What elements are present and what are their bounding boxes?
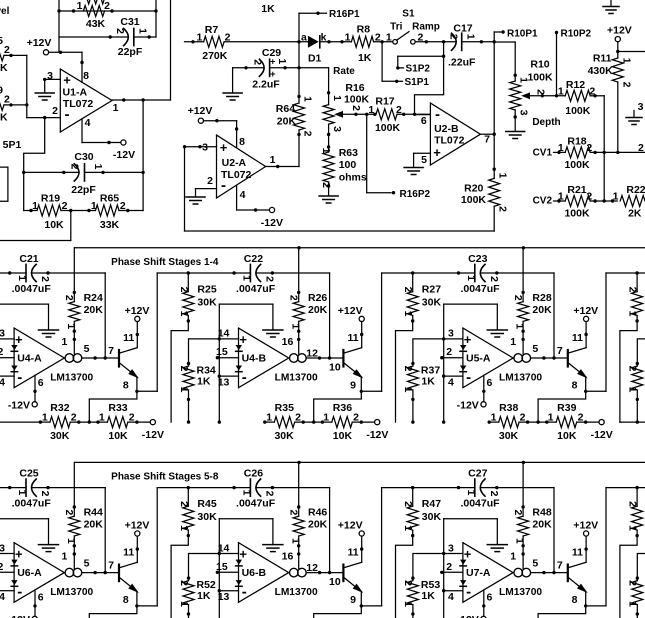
- svg-text:1K: 1K: [358, 52, 372, 64]
- svg-text:11: 11: [347, 546, 358, 558]
- svg-text:30K: 30K: [422, 511, 442, 523]
- svg-text:+12V: +12V: [338, 305, 363, 317]
- svg-text:2: 2: [39, 276, 51, 282]
- svg-text:R7: R7: [205, 24, 219, 36]
- svg-text:2: 2: [417, 31, 423, 43]
- svg-text:2: 2: [178, 287, 190, 293]
- svg-text:2: 2: [375, 31, 381, 43]
- svg-text:1: 1: [402, 525, 414, 531]
- svg-text:1: 1: [323, 411, 329, 423]
- svg-text:1: 1: [491, 411, 497, 423]
- svg-text:8: 8: [123, 379, 129, 391]
- svg-text:R22: R22: [626, 184, 645, 196]
- svg-text:U1-A: U1-A: [63, 87, 88, 99]
- svg-text:2: 2: [295, 411, 301, 423]
- svg-text:4: 4: [0, 591, 5, 603]
- svg-text:1: 1: [137, 28, 149, 34]
- svg-text:9: 9: [350, 379, 356, 391]
- svg-text:S1: S1: [402, 9, 415, 20]
- svg-text:2: 2: [0, 346, 3, 358]
- svg-text:R18: R18: [567, 136, 586, 148]
- svg-text:LM13700: LM13700: [50, 587, 93, 598]
- svg-text:10K: 10K: [108, 430, 128, 442]
- svg-text:2: 2: [512, 295, 524, 301]
- svg-text:-: -: [466, 584, 471, 601]
- svg-text:1K: 1K: [197, 376, 211, 388]
- svg-text:-12V: -12V: [457, 400, 479, 412]
- svg-text:430K: 430K: [588, 65, 614, 77]
- svg-text:2: 2: [114, 28, 126, 34]
- svg-text:20K: 20K: [532, 519, 552, 531]
- svg-text:4: 4: [448, 377, 454, 389]
- svg-text:2: 2: [638, 142, 644, 154]
- svg-text:R39: R39: [557, 402, 576, 414]
- svg-text:TL072: TL072: [434, 134, 465, 146]
- svg-text:R47: R47: [422, 498, 441, 510]
- svg-text:LM13700: LM13700: [499, 587, 542, 598]
- svg-text:1: 1: [65, 323, 77, 329]
- svg-text:TL072: TL072: [221, 169, 252, 181]
- svg-text:1K: 1K: [421, 590, 435, 602]
- svg-text:+: +: [464, 332, 472, 347]
- svg-text:1: 1: [276, 58, 288, 64]
- svg-text:2: 2: [120, 200, 126, 212]
- svg-text:30K: 30K: [499, 430, 519, 442]
- svg-text:CV1: CV1: [533, 147, 553, 158]
- svg-text:2: 2: [178, 580, 190, 586]
- svg-text:13: 13: [218, 377, 230, 389]
- svg-text:2: 2: [263, 276, 275, 282]
- svg-text:D1: D1: [308, 53, 322, 65]
- svg-text:2: 2: [4, 93, 10, 105]
- svg-text:1: 1: [61, 551, 67, 563]
- svg-text:2: 2: [535, 89, 547, 95]
- svg-text:2: 2: [39, 491, 51, 497]
- svg-text:Phase Shift Stages 5-8: Phase Shift Stages 5-8: [111, 471, 219, 482]
- svg-text:-: -: [466, 369, 471, 386]
- svg-text:30K: 30K: [50, 430, 70, 442]
- svg-text:13: 13: [218, 591, 230, 603]
- svg-text:R16: R16: [345, 82, 364, 94]
- svg-text:C21: C21: [19, 253, 38, 265]
- svg-text:5: 5: [84, 558, 90, 570]
- svg-text:12: 12: [306, 562, 318, 574]
- svg-text:100K: 100K: [461, 194, 487, 206]
- svg-text:1: 1: [289, 323, 301, 329]
- svg-text:C22: C22: [244, 253, 263, 265]
- svg-text:C23: C23: [468, 253, 487, 265]
- svg-text:1: 1: [178, 601, 190, 607]
- svg-text:U7-A: U7-A: [466, 567, 491, 579]
- svg-text:C30: C30: [74, 151, 93, 163]
- svg-text:15: 15: [216, 346, 228, 358]
- svg-text:1K: 1K: [197, 590, 211, 602]
- svg-text:5: 5: [532, 343, 538, 355]
- svg-text:1: 1: [16, 275, 28, 281]
- svg-text:2: 2: [302, 131, 314, 137]
- svg-text:.0047uF: .0047uF: [460, 283, 500, 295]
- svg-text:5: 5: [532, 558, 538, 570]
- svg-text:1: 1: [627, 525, 639, 531]
- svg-text:5P1: 5P1: [3, 139, 22, 151]
- svg-text:3: 3: [0, 542, 5, 554]
- svg-text:14: 14: [218, 328, 230, 340]
- svg-text:2: 2: [288, 295, 300, 301]
- svg-text:+: +: [433, 145, 441, 160]
- svg-text:2: 2: [402, 366, 414, 372]
- svg-text:R33: R33: [108, 402, 127, 414]
- svg-text:2: 2: [446, 561, 452, 573]
- svg-text:9: 9: [350, 594, 356, 606]
- svg-text:7: 7: [557, 560, 563, 572]
- svg-text:2: 2: [62, 200, 68, 212]
- svg-text:8: 8: [83, 70, 89, 82]
- svg-text:1: 1: [289, 538, 301, 544]
- svg-text:R28: R28: [532, 292, 551, 304]
- svg-text:-12V: -12V: [8, 614, 30, 618]
- svg-text:3: 3: [638, 101, 644, 113]
- svg-text:-12V: -12V: [591, 429, 613, 441]
- svg-text:2: 2: [251, 59, 263, 65]
- svg-text:100: 100: [339, 159, 357, 171]
- svg-text:1: 1: [16, 490, 28, 496]
- svg-text:2: 2: [353, 411, 359, 423]
- svg-text:2: 2: [288, 509, 300, 515]
- svg-text:.0047uF: .0047uF: [460, 497, 500, 509]
- svg-text:1: 1: [627, 387, 639, 393]
- svg-text:30K: 30K: [197, 297, 217, 309]
- svg-text:R64: R64: [276, 103, 295, 115]
- svg-text:10: 10: [329, 576, 341, 588]
- svg-text:1: 1: [558, 142, 564, 154]
- svg-text:Ramp: Ramp: [412, 22, 440, 33]
- svg-text:11: 11: [123, 546, 134, 558]
- svg-text:R32: R32: [50, 402, 69, 414]
- svg-text:15: 15: [216, 561, 228, 573]
- svg-text:1: 1: [465, 34, 477, 40]
- svg-text:8: 8: [123, 594, 129, 606]
- svg-text:10K: 10K: [44, 219, 64, 231]
- svg-text:8: 8: [572, 379, 578, 391]
- svg-text:LM13700: LM13700: [499, 373, 542, 384]
- svg-text:5: 5: [0, 35, 3, 47]
- svg-text:U4-B: U4-B: [242, 353, 267, 365]
- svg-text:+12V: +12V: [607, 25, 632, 37]
- svg-text:Depth: Depth: [532, 117, 560, 128]
- svg-text:R10: R10: [530, 59, 549, 71]
- svg-text:20K: 20K: [308, 519, 328, 531]
- svg-text:1: 1: [386, 31, 392, 43]
- svg-text:R36: R36: [333, 402, 352, 414]
- svg-text:33K: 33K: [100, 219, 120, 231]
- svg-text:ohms: ohms: [339, 172, 367, 184]
- svg-text:1K: 1K: [261, 3, 275, 15]
- svg-text:1: 1: [178, 387, 190, 393]
- svg-text:Phase Shift Stages 1-4: Phase Shift Stages 1-4: [111, 257, 219, 268]
- svg-text:6: 6: [487, 591, 493, 603]
- svg-text:2: 2: [627, 287, 639, 293]
- svg-text:K: K: [0, 62, 8, 74]
- svg-text:4: 4: [240, 189, 246, 201]
- svg-text:a: a: [301, 31, 307, 43]
- svg-text:U2-A: U2-A: [222, 157, 247, 169]
- svg-text:TL072: TL072: [63, 98, 94, 110]
- svg-text:1: 1: [196, 32, 202, 44]
- svg-text:R10P2: R10P2: [561, 28, 592, 39]
- svg-text:2: 2: [488, 276, 500, 282]
- svg-text:S1P2: S1P2: [406, 64, 431, 75]
- svg-text:R35: R35: [275, 402, 294, 414]
- svg-text:R48: R48: [532, 507, 551, 519]
- svg-text:2: 2: [488, 491, 500, 497]
- svg-text:1: 1: [266, 411, 272, 423]
- svg-text:2: 2: [497, 206, 509, 212]
- svg-text:R27: R27: [422, 284, 441, 296]
- svg-text:R16P1: R16P1: [329, 9, 360, 20]
- svg-text:3: 3: [448, 542, 454, 554]
- svg-text:U2-B: U2-B: [434, 123, 459, 135]
- svg-text:6: 6: [38, 591, 44, 603]
- svg-text:2: 2: [52, 105, 58, 117]
- svg-text:1: 1: [510, 551, 516, 563]
- svg-text:vel: vel: [0, 6, 10, 17]
- svg-text:2: 2: [0, 561, 3, 573]
- svg-text:-: -: [17, 584, 22, 601]
- svg-text:20K: 20K: [277, 116, 297, 128]
- svg-text:+: +: [63, 73, 71, 88]
- svg-text:1: 1: [178, 525, 190, 531]
- svg-text:2: 2: [104, 0, 110, 12]
- svg-text:270K: 270K: [202, 50, 228, 62]
- svg-text:1: 1: [345, 31, 351, 43]
- svg-text:-12V: -12V: [8, 400, 30, 412]
- svg-text:C27: C27: [468, 467, 487, 479]
- svg-text:1: 1: [558, 191, 564, 203]
- svg-text:4: 4: [448, 591, 454, 603]
- svg-text:k: k: [321, 31, 327, 43]
- svg-text:22pF: 22pF: [71, 184, 96, 196]
- svg-text:R12: R12: [566, 79, 585, 91]
- svg-text:1: 1: [548, 411, 554, 423]
- svg-text:3: 3: [0, 328, 5, 340]
- svg-text:4: 4: [0, 377, 5, 389]
- svg-text:C17: C17: [453, 23, 472, 35]
- svg-text:2: 2: [512, 509, 524, 515]
- svg-text:2: 2: [178, 501, 190, 507]
- svg-text:R25: R25: [197, 284, 216, 296]
- svg-text:R19: R19: [41, 193, 60, 205]
- svg-text:3: 3: [448, 328, 454, 340]
- svg-text:8: 8: [572, 594, 578, 606]
- svg-text:1: 1: [178, 311, 190, 317]
- svg-text:20K: 20K: [532, 304, 552, 316]
- svg-text:7: 7: [557, 345, 563, 357]
- svg-text:2: 2: [621, 82, 633, 88]
- svg-text:14: 14: [218, 542, 230, 554]
- svg-text:2: 2: [402, 501, 414, 507]
- svg-text:20K: 20K: [308, 304, 328, 316]
- svg-text:+12V: +12V: [188, 105, 213, 117]
- svg-text:R26: R26: [308, 292, 327, 304]
- svg-text:2: 2: [63, 509, 75, 515]
- svg-text:100K: 100K: [527, 72, 553, 84]
- svg-text:1: 1: [613, 191, 619, 203]
- svg-text:+12V: +12V: [125, 519, 150, 531]
- svg-text:2: 2: [63, 295, 75, 301]
- svg-text:2: 2: [627, 580, 639, 586]
- svg-text:+12V: +12V: [27, 37, 52, 49]
- svg-text:R45: R45: [197, 498, 216, 510]
- svg-text:1: 1: [514, 538, 526, 544]
- svg-text:3: 3: [47, 70, 53, 82]
- svg-text:1: 1: [270, 154, 276, 166]
- svg-text:R16P2: R16P2: [400, 189, 431, 200]
- svg-text:R21: R21: [567, 184, 586, 196]
- svg-text:2: 2: [446, 346, 452, 358]
- svg-text:.0047uF: .0047uF: [12, 283, 52, 295]
- svg-text:+12V: +12V: [125, 305, 150, 317]
- svg-text:1: 1: [368, 104, 374, 116]
- svg-text:1: 1: [497, 173, 509, 179]
- svg-text:1: 1: [627, 601, 639, 607]
- svg-text:2: 2: [263, 491, 275, 497]
- svg-text:3: 3: [331, 126, 343, 132]
- svg-text:1: 1: [331, 95, 343, 101]
- svg-text:+: +: [464, 547, 472, 562]
- svg-text:16: 16: [282, 336, 294, 348]
- svg-text:+: +: [220, 140, 228, 155]
- svg-text:LM13700: LM13700: [275, 587, 318, 598]
- svg-text:1K: 1K: [421, 376, 435, 388]
- svg-text:+12V: +12V: [573, 305, 598, 317]
- svg-text:+: +: [239, 547, 247, 562]
- svg-text:6: 6: [487, 377, 493, 389]
- svg-text:R24: R24: [84, 292, 103, 304]
- svg-text:2: 2: [71, 411, 77, 423]
- svg-text:1: 1: [302, 96, 314, 102]
- svg-text:+: +: [270, 69, 276, 80]
- svg-text:30K: 30K: [422, 297, 442, 309]
- svg-text:-12V: -12V: [113, 149, 135, 161]
- svg-text:2: 2: [586, 191, 592, 203]
- svg-text:R38: R38: [499, 402, 518, 414]
- svg-text:2: 2: [396, 104, 402, 116]
- svg-text:-: -: [242, 369, 247, 386]
- svg-text:10: 10: [329, 362, 341, 374]
- svg-text:12: 12: [306, 348, 318, 360]
- svg-text:.22uF: .22uF: [448, 57, 476, 69]
- svg-text:1: 1: [77, 0, 83, 12]
- svg-text:1: 1: [402, 601, 414, 607]
- svg-text:1: 1: [621, 58, 633, 64]
- svg-text:11: 11: [572, 332, 583, 344]
- svg-text:2: 2: [129, 411, 135, 423]
- svg-text:2: 2: [589, 85, 595, 97]
- svg-text:1: 1: [320, 148, 332, 154]
- svg-text:U6-A: U6-A: [17, 567, 42, 579]
- svg-text:11: 11: [347, 332, 358, 344]
- svg-text:1: 1: [61, 336, 67, 348]
- svg-text:.0047uF: .0047uF: [12, 497, 52, 509]
- svg-text:R17: R17: [375, 96, 394, 108]
- svg-text:1: 1: [465, 275, 477, 281]
- svg-text:6: 6: [38, 377, 44, 389]
- svg-text:2: 2: [225, 32, 231, 44]
- svg-text:-12V: -12V: [142, 429, 164, 441]
- svg-text:R10P1: R10P1: [507, 28, 538, 39]
- svg-text:2: 2: [520, 411, 526, 423]
- svg-text:8: 8: [239, 136, 245, 148]
- svg-text:R65: R65: [100, 193, 119, 205]
- svg-text:K: K: [0, 112, 8, 124]
- svg-text:2K: 2K: [628, 208, 642, 220]
- svg-text:1: 1: [42, 411, 48, 423]
- svg-text:R63: R63: [339, 147, 358, 159]
- svg-text:2.2uF: 2.2uF: [252, 78, 280, 90]
- svg-text:20K: 20K: [84, 519, 104, 531]
- svg-text:+: +: [270, 56, 276, 67]
- svg-text:C25: C25: [19, 467, 38, 479]
- svg-text:C31: C31: [120, 16, 139, 28]
- svg-text:5: 5: [421, 154, 427, 166]
- svg-text:1: 1: [240, 275, 252, 281]
- svg-text:1: 1: [65, 538, 77, 544]
- svg-text:10K: 10K: [333, 430, 353, 442]
- svg-text:100K: 100K: [375, 122, 401, 134]
- svg-text:3: 3: [518, 110, 530, 116]
- svg-text:C26: C26: [244, 467, 263, 479]
- svg-text:22pF: 22pF: [118, 46, 143, 58]
- svg-text:R44: R44: [84, 507, 103, 519]
- svg-text:U5-A: U5-A: [466, 353, 491, 365]
- svg-text:+: +: [15, 547, 23, 562]
- svg-text:1: 1: [514, 323, 526, 329]
- svg-text:R46: R46: [308, 507, 327, 519]
- svg-text:1: 1: [510, 336, 516, 348]
- svg-text:1: 1: [402, 311, 414, 317]
- svg-text:-: -: [17, 369, 22, 386]
- svg-text:-12V: -12V: [366, 429, 388, 441]
- svg-text:+: +: [15, 332, 23, 347]
- svg-text:5: 5: [84, 343, 90, 355]
- svg-text:1: 1: [99, 411, 105, 423]
- svg-text:CV2: CV2: [533, 195, 553, 206]
- svg-text:100K: 100K: [564, 208, 590, 220]
- svg-text:7: 7: [108, 560, 114, 572]
- svg-text:U6-B: U6-B: [242, 567, 267, 579]
- svg-text:1: 1: [113, 102, 119, 114]
- svg-text:1: 1: [402, 387, 414, 393]
- svg-text:1: 1: [558, 85, 564, 97]
- svg-text:R20: R20: [464, 183, 483, 195]
- svg-text:9: 9: [0, 85, 3, 97]
- svg-text:S1P1: S1P1: [405, 77, 430, 88]
- svg-text:100K: 100K: [565, 105, 591, 117]
- svg-text:LM13700: LM13700: [50, 373, 93, 384]
- svg-text:2: 2: [207, 175, 213, 187]
- svg-text:20K: 20K: [84, 304, 104, 316]
- svg-text:Rate: Rate: [333, 66, 355, 77]
- svg-text:-12V: -12V: [457, 614, 479, 618]
- svg-text:3: 3: [202, 142, 208, 154]
- svg-text:2: 2: [402, 580, 414, 586]
- svg-text:30K: 30K: [274, 430, 294, 442]
- svg-text:2: 2: [448, 34, 460, 40]
- svg-text:2: 2: [627, 366, 639, 372]
- svg-text:1: 1: [240, 490, 252, 496]
- svg-text:+12V: +12V: [338, 519, 363, 531]
- svg-text:100K: 100K: [564, 159, 590, 171]
